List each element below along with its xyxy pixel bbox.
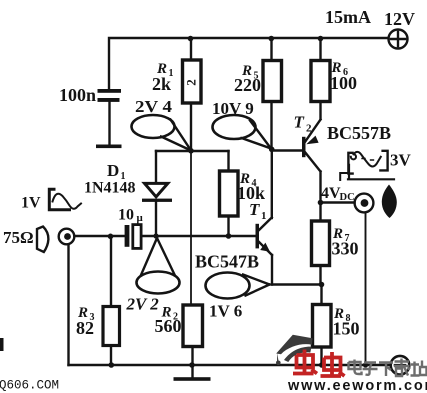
svg-text:100: 100 xyxy=(330,73,357,93)
left edge mark xyxy=(0,338,4,351)
wire below 100n xyxy=(108,102,110,145)
svg-text:D: D xyxy=(107,161,119,180)
wire base line (left of 10u cap) xyxy=(74,235,124,237)
resistor R4 10k xyxy=(227,151,229,171)
svg-text:12V: 12V xyxy=(384,9,415,29)
svg-text:1V: 1V xyxy=(21,195,41,212)
svg-text:75Ω: 75Ω xyxy=(3,228,34,247)
svg-text:10V 9: 10V 9 xyxy=(212,99,254,118)
capacitor 10u electrolytic xyxy=(125,225,130,247)
ground bar below 100n xyxy=(96,145,122,149)
wire output terminal down to ground rail xyxy=(365,213,367,366)
resistor R6 100 xyxy=(319,38,321,61)
resistor R3 82 xyxy=(110,236,112,307)
terminal +12V plus xyxy=(389,30,408,49)
label 75ohm xyxy=(3,228,34,247)
input terminal xyxy=(59,229,75,245)
svg-text:3V: 3V xyxy=(390,151,412,170)
svg-text:Q606.COM: Q606.COM xyxy=(0,379,59,393)
label 15mA xyxy=(325,7,371,27)
svg-text:10: 10 xyxy=(118,207,134,224)
output terminal xyxy=(355,194,374,213)
svg-text:82: 82 xyxy=(76,318,94,338)
watermark chongchong red characters xyxy=(293,350,345,377)
svg-text:2: 2 xyxy=(306,123,312,135)
resistor R5 220 xyxy=(270,38,272,61)
resistor R8 150 xyxy=(320,285,322,305)
svg-text:150: 150 xyxy=(333,319,360,339)
svg-text:2V 2: 2V 2 xyxy=(126,295,160,314)
svg-text:1V 6: 1V 6 xyxy=(209,302,242,321)
resistor R1 xyxy=(190,38,192,60)
watermark url xyxy=(287,378,427,393)
balloon probe 1V6 xyxy=(206,273,250,299)
svg-text:μ: μ xyxy=(137,212,144,224)
svg-text:2V 4: 2V 4 xyxy=(135,97,173,116)
balloon probe 2V2 xyxy=(137,272,180,294)
wire input terminal down to ground rail xyxy=(67,244,69,365)
svg-text:4V: 4V xyxy=(321,185,341,202)
node A wire xyxy=(156,150,229,152)
svg-text:100n: 100n xyxy=(59,85,96,105)
wire bottom ground rail xyxy=(69,364,391,366)
transistor T2 BC557B xyxy=(302,137,306,157)
svg-text:2k: 2k xyxy=(152,74,171,94)
resistor R7 330 xyxy=(319,203,321,222)
output node wire and 4VDC label xyxy=(318,200,324,206)
svg-text:560: 560 xyxy=(155,316,182,336)
diode D1 1N4148 xyxy=(155,151,157,183)
svg-text:DC: DC xyxy=(340,192,355,203)
svg-text:15mA: 15mA xyxy=(325,7,371,27)
watermark swoosh xyxy=(276,335,313,365)
balloon probe 10V9 xyxy=(213,115,256,139)
svg-text:2: 2 xyxy=(183,79,198,86)
capacitor C1 100n xyxy=(98,89,122,102)
svg-text:T: T xyxy=(294,113,305,132)
svg-text:BC557B: BC557B xyxy=(327,123,391,143)
terminal ground minus xyxy=(391,356,410,375)
svg-text:1: 1 xyxy=(261,210,267,222)
wire node A down to R2 (crosses base wire, no joint) xyxy=(190,151,192,305)
watermark Q606.COM xyxy=(0,379,59,393)
svg-text:BC547B: BC547B xyxy=(195,252,259,272)
wire base line (right of cap to T1) xyxy=(141,235,256,237)
label 1V with sine xyxy=(21,195,41,212)
label 12V xyxy=(384,9,415,29)
transistor T1 BC547B xyxy=(256,224,260,249)
annotation 3V lead line xyxy=(340,173,348,180)
watermark gray characters dianzixiazaizhan xyxy=(349,359,427,377)
ground symbol below R2 xyxy=(191,365,193,378)
annotation 3V sine xyxy=(348,153,352,174)
speaker blob symbol xyxy=(382,185,397,219)
svg-text:1N4148: 1N4148 xyxy=(84,180,136,197)
resistor R2 560 xyxy=(183,305,203,347)
svg-text:330: 330 xyxy=(332,239,359,259)
wire top supply rail xyxy=(109,38,388,89)
svg-text:www.eeworm.com: www.eeworm.com xyxy=(287,378,427,393)
svg-text:T: T xyxy=(249,200,260,219)
balloon probe 2V4 xyxy=(132,115,175,138)
source pentagon symbol xyxy=(37,227,48,253)
svg-text:220: 220 xyxy=(234,75,261,95)
